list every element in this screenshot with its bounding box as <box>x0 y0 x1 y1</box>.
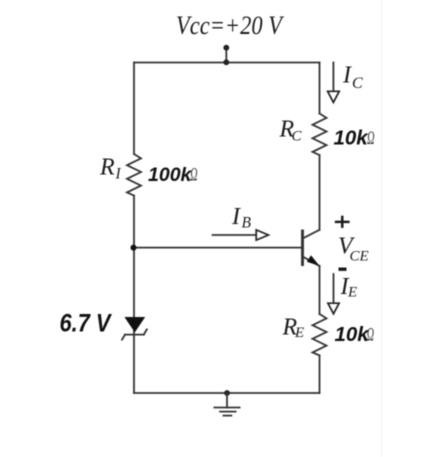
svg-text:B: B <box>242 215 252 232</box>
svg-text:6.7 V: 6.7 V <box>60 310 113 338</box>
svg-text:E: E <box>294 325 304 341</box>
svg-text:R: R <box>99 155 115 181</box>
svg-text:Ω: Ω <box>367 324 375 345</box>
svg-text:I: I <box>231 204 241 230</box>
svg-text:Ω: Ω <box>367 128 375 149</box>
svg-text:CE: CE <box>350 249 369 265</box>
svg-text:I: I <box>342 63 352 89</box>
svg-text:Vcc=+20 V: Vcc=+20 V <box>176 11 285 40</box>
svg-text:10k: 10k <box>334 127 370 150</box>
svg-text:10k: 10k <box>335 323 371 346</box>
svg-text:Ω: Ω <box>190 164 198 185</box>
svg-text:I: I <box>115 166 122 183</box>
svg-text:100k: 100k <box>148 164 193 186</box>
svg-text:C: C <box>292 129 303 145</box>
svg-text:C: C <box>352 75 363 92</box>
svg-text:E: E <box>347 285 357 301</box>
